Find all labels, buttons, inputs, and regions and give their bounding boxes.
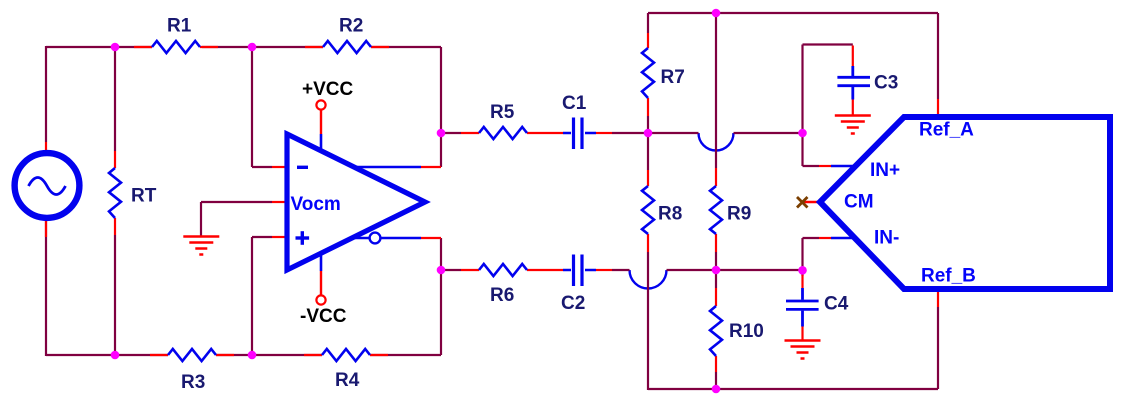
- junction dot R1 R2 node: [248, 43, 257, 52]
- pin stub source bottom: [45, 220, 47, 237]
- pin stub R6 left: [461, 269, 479, 271]
- resistor R8: [642, 186, 654, 234]
- wire R9 R10 column: [715, 13, 717, 390]
- label R8: [658, 204, 682, 225]
- op-amp output line top: [356, 166, 421, 169]
- svg-text:RT: RT: [131, 186, 157, 207]
- svg-text:R6: R6: [490, 285, 514, 306]
- label R1: [167, 16, 192, 37]
- pin stub CM: [804, 201, 821, 203]
- resistor R3: [168, 349, 216, 361]
- pin stub R7 top: [647, 33, 649, 48]
- op-amp +VCC pin: [316, 100, 325, 151]
- svg-text:C3: C3: [874, 73, 898, 94]
- wire left branch vertical (source branch): [46, 46, 168, 356]
- label R10: [729, 321, 764, 342]
- pin name IN-: [874, 228, 899, 249]
- svg-text:C1: C1: [562, 93, 587, 114]
- capacitor C4: [786, 288, 819, 327]
- junction dot node A: [798, 129, 807, 138]
- pin stub IN-: [819, 237, 831, 239]
- op-amp -VCC pin: [316, 254, 325, 305]
- capacitor C3: [837, 66, 870, 100]
- pin stub opamp output top: [421, 166, 441, 168]
- capacitor C1: [563, 118, 596, 150]
- svg-text:Vocm: Vocm: [291, 194, 341, 215]
- pin stub R6 right and C2 left: [527, 269, 563, 271]
- junction dot feedback R5 node: [437, 129, 446, 138]
- svg-text:R4: R4: [335, 370, 360, 391]
- svg-text:C4: C4: [824, 294, 849, 315]
- label R5: [490, 102, 515, 123]
- wire right feedback vertical top: [441, 47, 461, 167]
- label R2: [339, 16, 363, 37]
- pin stub R10 bottom: [715, 356, 717, 372]
- wire R3R4 node to opamp plus input: [252, 237, 272, 355]
- pin line IN-: [831, 237, 856, 240]
- junction dot RT bottom: [111, 351, 120, 360]
- pin stub C1 right: [596, 132, 612, 134]
- wire C1 to node A: [612, 132, 803, 134]
- op-amp U1 fully differential amplifier triangle: [287, 134, 425, 270]
- pin stub R1 left: [134, 46, 152, 48]
- svg-text:Ref_B: Ref_B: [921, 266, 976, 287]
- pin stub R7 bottom: [647, 98, 649, 116]
- svg-text:CM: CM: [844, 192, 874, 213]
- ADC input stage polygon U2: [820, 117, 1110, 289]
- resistor R2: [323, 41, 371, 53]
- wire R7 column: [647, 13, 649, 390]
- pin stub R8 top: [647, 170, 649, 186]
- svg-text:IN+: IN+: [870, 160, 900, 181]
- pin stub R4 right: [370, 354, 388, 356]
- pin stub R3 left: [150, 354, 168, 356]
- label RT: [131, 186, 157, 207]
- pin stub C4 top: [801, 275, 803, 288]
- pin stub R10 top: [715, 288, 717, 306]
- pin stub RT bottom: [114, 218, 116, 235]
- junction dot RT top: [111, 43, 120, 52]
- pin name CM: [844, 192, 874, 213]
- label R7: [661, 67, 685, 88]
- junction dot R9 R10 node: [712, 266, 721, 275]
- wire bottom rail right: [648, 307, 938, 389]
- svg-text:R10: R10: [729, 321, 764, 342]
- wire top rail left: [46, 46, 441, 48]
- pin stub R8 bottom: [647, 234, 649, 252]
- capacitor C2: [563, 255, 596, 287]
- wire node B to IN- and C4: [803, 238, 820, 276]
- pin name IN+: [870, 160, 900, 181]
- junction dot top rail R9: [712, 9, 721, 18]
- wire right feedback vertical bottom: [441, 238, 461, 355]
- pin stub C3 top: [852, 46, 854, 67]
- hop arc over vertical wire (C1 net jumps R9 column): [699, 133, 734, 151]
- resistor RT: [109, 168, 121, 218]
- pin name Ref_B: [921, 266, 976, 287]
- wire C2 to node B: [612, 269, 803, 271]
- junction dot R3 R4 node: [248, 351, 257, 360]
- pin stub Ref_B: [937, 291, 939, 307]
- pin stub R9 bottom: [715, 234, 717, 252]
- sine source V1 circle: [15, 153, 80, 218]
- op-amp output line bottom with bubble: [353, 233, 421, 244]
- resistor R9: [710, 186, 722, 234]
- junction dot node B: [798, 266, 807, 275]
- op-amp Vocm pin name: [291, 194, 341, 215]
- wire node A to IN+ and C3 loop: [803, 45, 853, 167]
- label +VCC: [302, 79, 353, 100]
- pin stub opamp minus input: [272, 166, 288, 168]
- wire top rail right: [648, 13, 938, 99]
- label C1: [562, 93, 587, 114]
- label C2: [561, 293, 585, 314]
- label C3: [874, 73, 898, 94]
- wire bottom rail: [216, 354, 441, 356]
- op-amp minus sign: [297, 166, 308, 169]
- wire R1R2 node to opamp minus input: [252, 47, 272, 167]
- label C4: [824, 294, 849, 315]
- svg-text:R5: R5: [490, 102, 515, 123]
- pin stub R1 right: [200, 46, 218, 48]
- no-connect X on CM pin: [797, 197, 808, 208]
- junction dot feedback R6 node: [437, 266, 446, 275]
- resistor R6: [479, 264, 527, 276]
- pin name Ref_A: [919, 120, 974, 141]
- pin stub C3 bottom to ground: [852, 100, 854, 115]
- resistor R5: [479, 127, 527, 139]
- wire vocm ground branch: [201, 202, 272, 236]
- svg-text:-VCC: -VCC: [300, 306, 347, 327]
- pin stub R9 top: [715, 168, 717, 186]
- svg-text:C2: C2: [561, 293, 585, 314]
- pin stub RT top: [114, 151, 116, 168]
- label R9: [727, 204, 751, 225]
- svg-text:R7: R7: [661, 67, 685, 88]
- pin stub R5 left: [461, 132, 479, 134]
- label R3: [181, 372, 205, 393]
- label -VCC: [300, 306, 347, 327]
- pin stub R3 right: [216, 354, 234, 356]
- wire RT column: [114, 47, 116, 355]
- ground below C3: [835, 116, 871, 134]
- svg-text:R3: R3: [181, 372, 205, 393]
- pin stub R5 right and C1 left: [527, 132, 563, 134]
- label R4: [335, 370, 360, 391]
- op-amp plus sign: [296, 231, 310, 245]
- pin stub C4 bottom to ground: [801, 327, 803, 340]
- pin stub Ref_A: [937, 99, 939, 116]
- resistor R7: [642, 48, 654, 98]
- svg-text:IN-: IN-: [874, 228, 899, 249]
- pin stub opamp vocm input: [272, 201, 288, 203]
- pin stub source top: [45, 142, 47, 152]
- junction dot bottom rail R10: [712, 385, 721, 394]
- pin line IN+: [831, 165, 857, 168]
- pin stub opamp plus input: [272, 236, 288, 238]
- svg-text:+VCC: +VCC: [302, 79, 353, 100]
- resistor R10: [710, 306, 722, 356]
- pin stub R4 left: [304, 354, 322, 356]
- svg-text:R9: R9: [727, 204, 751, 225]
- pin stub C2 right: [596, 269, 612, 271]
- pin stub IN+: [819, 165, 831, 167]
- hop arc over vertical wire (C2 net jumps R8 column): [630, 270, 667, 289]
- pin stub R2 right: [371, 46, 389, 48]
- junction dot R7 R8 node: [644, 129, 653, 138]
- resistor R4: [322, 349, 370, 361]
- svg-text:R2: R2: [339, 16, 363, 37]
- ground at Vocm: [183, 237, 219, 255]
- resistor R1: [152, 41, 200, 53]
- ground below C4: [785, 341, 821, 359]
- svg-text:R8: R8: [658, 204, 682, 225]
- pin stub R2 left: [305, 46, 323, 48]
- pin stub opamp output bottom: [421, 237, 441, 239]
- label R6: [490, 285, 514, 306]
- svg-text:Ref_A: Ref_A: [919, 120, 974, 141]
- svg-text:R1: R1: [167, 16, 192, 37]
